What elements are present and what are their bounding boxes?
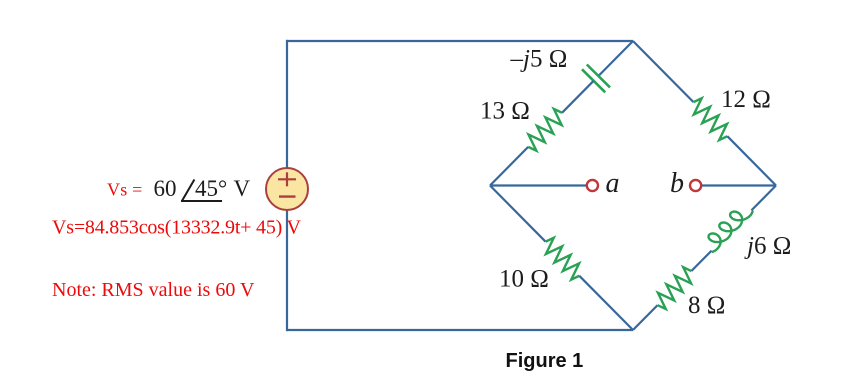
wire left vertex to terminal a <box>490 184 586 186</box>
svg-text:a: a <box>606 168 620 199</box>
wire resistor 13 to left vertex <box>490 147 528 186</box>
wire left vertex to resistor 10 <box>490 186 546 242</box>
svg-text:45°: 45° <box>195 176 227 201</box>
svg-text:60: 60 <box>154 176 177 201</box>
voltage source minus sign <box>279 195 296 197</box>
wire bottom horizontal <box>286 329 633 331</box>
wire T to capacitor <box>598 41 633 76</box>
svg-text:12 Ω: 12 Ω <box>721 86 771 113</box>
wire inductor to right vertex <box>751 186 776 211</box>
inductor j6 coil <box>702 201 753 252</box>
voltage source Vs circle <box>266 168 308 210</box>
resistor 13 ohm zigzag <box>522 107 568 153</box>
svg-text:–j5 Ω: –j5 Ω <box>510 46 568 73</box>
svg-text:Vs =: Vs = <box>107 180 142 200</box>
wire T to resistor 12 <box>633 41 694 102</box>
svg-text:Vs=84.853cos(13332.9t+ 45) V: Vs=84.853cos(13332.9t+ 45) V <box>52 217 302 239</box>
wire resistor 8 to inductor <box>691 251 711 271</box>
wire capacitor to resistor 13 <box>562 81 594 113</box>
wire bottom vertex to resistor 8 <box>633 305 658 330</box>
wire resistor 10 to bottom vertex <box>579 276 633 330</box>
angle symbol <box>182 180 195 202</box>
wire top horizontal <box>286 40 633 42</box>
resistor 8 ohm zigzag <box>652 265 698 311</box>
svg-text:10 Ω: 10 Ω <box>499 266 549 293</box>
wire resistor 12 to right vertex <box>727 136 776 185</box>
voltage source plus sign <box>278 178 296 180</box>
wire left vertical <box>286 40 288 331</box>
wire terminal b to right vertex <box>702 184 776 186</box>
terminal b circle <box>690 180 701 191</box>
svg-text:Note: RMS value is 60 V: Note: RMS value is 60 V <box>52 279 255 301</box>
svg-text:Figure 1: Figure 1 <box>506 350 584 372</box>
svg-text:13 Ω: 13 Ω <box>480 98 530 125</box>
capacitor C (-j5) plates <box>587 65 610 88</box>
svg-text:b: b <box>670 168 684 199</box>
svg-text:j6 Ω: j6 Ω <box>744 233 791 260</box>
terminal a circle <box>587 180 598 191</box>
resistor 12 ohm zigzag <box>687 96 733 142</box>
svg-text:V: V <box>234 176 251 201</box>
resistor 10 ohm zigzag <box>540 236 586 282</box>
svg-text:8 Ω: 8 Ω <box>688 292 725 319</box>
